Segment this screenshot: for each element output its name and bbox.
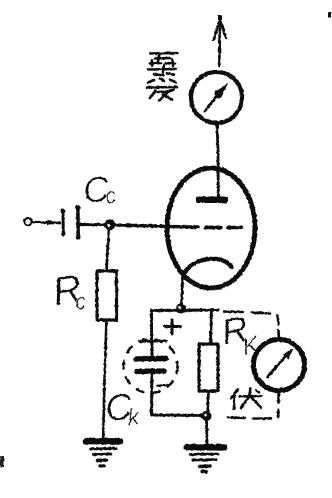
resistor Rk — [199, 344, 218, 391]
wire meter to tube plate lead — [217, 124, 218, 196]
label Rc — [49, 266, 87, 314]
node grid junction — [105, 219, 116, 230]
wire dashed to voltmeter (top) — [224, 312, 279, 339]
wire cathode top rail — [151, 309, 218, 313]
tube V1 envelope — [167, 168, 255, 288]
tube cathode — [184, 259, 232, 274]
input terminal — [24, 218, 31, 225]
wire input to Cc — [32, 220, 60, 226]
wire cathode bottom rail — [152, 414, 207, 416]
wire Cc to grid node — [80, 223, 104, 226]
label 毫安 (milliampere) — [147, 53, 177, 101]
resistor Rc — [97, 271, 117, 320]
ground (right) — [187, 447, 224, 472]
node cathode junction — [176, 304, 186, 314]
wire Rc to ground — [103, 320, 106, 438]
node bottom junction — [202, 411, 212, 421]
label 伏 (volt) — [231, 389, 261, 409]
meter M2 voltmeter circle — [254, 340, 305, 391]
capacitor Ck plus sign — [165, 320, 181, 335]
label Rk — [218, 308, 262, 362]
label Cc — [81, 168, 118, 212]
wire grid node down to Rc — [107, 230, 110, 271]
wire cathode lead — [181, 271, 183, 308]
capacitor Cc — [61, 206, 81, 239]
meter M1 needle — [205, 83, 229, 112]
capacitor Ck plates — [136, 341, 166, 372]
capacitor Ck branch wire (left side) — [150, 310, 154, 413]
tube grid (dashed) — [184, 225, 242, 229]
ground (left) — [86, 441, 120, 466]
wire supply arrow shaft — [218, 21, 221, 66]
capacitor Ck minus mark — [157, 385, 167, 386]
capacitor Ck dashed circle — [124, 339, 178, 393]
meter M2 needle — [268, 348, 294, 377]
wire Rk to bottom rail — [208, 391, 209, 415]
wire junction to ground — [205, 421, 208, 443]
wire top rail to Rk — [211, 310, 212, 344]
label Ck — [103, 386, 143, 432]
wire grid node to tube — [115, 225, 184, 227]
tube plate — [196, 197, 228, 204]
supply arrowhead — [214, 15, 227, 40]
wire dashed to voltmeter (bottom) — [228, 392, 279, 419]
meter M1 milliammeter circle — [191, 72, 242, 123]
